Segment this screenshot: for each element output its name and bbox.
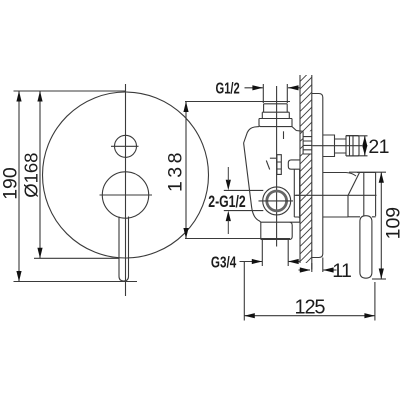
dimension G3/4: extension lines [262, 240, 288, 267]
dimension 21: dimension line [364, 136, 366, 156]
side view: body bottom lip [294, 217, 300, 222]
svg-text:138: 138 [165, 153, 187, 193]
arrowhead G3/4 left [252, 259, 262, 264]
dimension 109: extension bottom [372, 278, 386, 280]
side view: body front edge [293, 169, 295, 217]
dimension 190: extension line bottom [14, 281, 138, 283]
svg-text:109: 109 [382, 207, 400, 240]
dimension 190: dimension line [18, 91, 20, 282]
svg-text:125: 125 [295, 297, 326, 319]
arrowhead 168 top [37, 91, 42, 102]
arrowhead 109 top [379, 172, 384, 183]
front view: diverter button circle [115, 135, 137, 157]
side view: wall thread block [303, 131, 311, 154]
arrowhead 2-G1/2 bottom [226, 211, 231, 222]
arrowhead 138 bottom [183, 228, 188, 239]
front view: vertical centerline [125, 84, 127, 296]
side view: inlet boss outer circle [263, 187, 291, 215]
side view: test plug cap [277, 155, 281, 175]
side view: G1/2 top pipe [262, 104, 289, 119]
side view: body interior dash [283, 131, 285, 139]
arrowhead G1/2 right [288, 85, 299, 90]
front view: handle hub circle [102, 172, 148, 218]
escutcheon plate side: back/front faces [312, 94, 323, 258]
front view: escutcheon plate circle O168 [43, 92, 209, 258]
side view: top pipe flange [259, 119, 292, 127]
dimension G1/2: leader right [288, 87, 300, 89]
svg-text:Ø168: Ø168 [21, 153, 42, 198]
dimension 168: dimension line [39, 91, 41, 258]
side view: inlet thread ring [267, 191, 287, 211]
dimension G1/2: extension lines [263, 84, 287, 103]
arrowhead 21 top [362, 136, 367, 147]
arrowhead 125 right [364, 313, 375, 318]
handle arm edges [357, 173, 376, 217]
connector: neck [335, 136, 347, 157]
arrowhead 21 bottom [362, 145, 367, 156]
arrowhead 125 left [244, 313, 255, 318]
dimension 109: dimension line [380, 172, 382, 279]
arrowhead 11 left [300, 267, 311, 272]
dimension G3/4: leader right [289, 261, 301, 263]
dimension 125: extension right [374, 282, 376, 321]
side view: stem axis centerline [296, 194, 377, 196]
dimension 190: extension line top [14, 90, 126, 92]
connector: axis centerline [312, 145, 362, 147]
svg-text:2-G1/2: 2-G1/2 [208, 193, 245, 211]
escutcheon plate face extension [322, 258, 324, 273]
side view: body neck left step [244, 127, 259, 143]
arrowhead 2-G1/2 top [226, 180, 231, 191]
wall: left face [299, 75, 301, 263]
handle arm shoulder [348, 216, 376, 218]
arrowhead 109 bottom [379, 269, 384, 280]
side view: body front edge upper [299, 154, 301, 160]
arrowhead 11 right [323, 267, 334, 272]
arrowhead 168 bottom [37, 248, 42, 258]
arrowhead G1/2 left [252, 85, 263, 90]
svg-text:G1/2: G1/2 [216, 78, 241, 97]
side view: bottom outlet pipe G3/4 [261, 222, 300, 239]
dimension 125: extension left [243, 262, 245, 321]
connector: through-plate section [323, 135, 335, 157]
arrowhead 190 bottom [16, 271, 21, 282]
side view: plug stub line [270, 157, 277, 159]
connector: tip [346, 136, 359, 157]
wall hatch [292, 62, 312, 285]
side view: body back slant [244, 143, 261, 222]
dimension 138: extension line bottom [185, 238, 290, 240]
arrowhead 190 top [16, 91, 21, 102]
dimension 168: extension line bottom [34, 257, 119, 259]
dimension G3/4: leader left [240, 261, 263, 263]
side view: inlet crosshair [259, 200, 294, 202]
dimension 125: dimension line [244, 315, 375, 317]
dimension 11: leader right [323, 269, 336, 271]
dimension 138: extension line top [185, 101, 290, 103]
dimension 11: wall face extension [311, 263, 313, 272]
arrowhead G3/4 right [288, 259, 299, 264]
2-G1/2 arrow stems [227, 167, 229, 234]
side view: inlet tangent extension bottom [224, 210, 263, 212]
side view: inlet tangent extension top [224, 189, 263, 191]
dimension 138: dimension line [185, 102, 187, 239]
front view: lever handle capsule [119, 217, 129, 282]
svg-text:1: 1 [379, 136, 390, 158]
lever bar capsule [360, 216, 372, 279]
side view: vertical centerline [276, 86, 278, 247]
dimension 21: extension lines [346, 136, 368, 156]
arrowhead 138 top [183, 102, 188, 113]
wall: right face [311, 75, 313, 270]
svg-text:1: 1 [341, 260, 352, 282]
handle hub [323, 173, 356, 218]
side view: cartridge stub [288, 160, 300, 169]
front view: diverter button crosshair [111, 145, 139, 147]
svg-text:G3/4: G3/4 [211, 253, 236, 271]
dimension 109: extension top [349, 171, 386, 173]
side view: plug left tick [266, 161, 269, 170]
side view: body top-right slant to wall [292, 127, 303, 132]
svg-text:190: 190 [0, 167, 22, 200]
handle arm taper diagonal [348, 173, 360, 196]
dimension G1/2: leader left [245, 87, 263, 89]
side view: sleeve front edge [294, 169, 299, 217]
dimension 11: leader left [299, 269, 311, 271]
front view: handle hub crosshair [100, 194, 153, 196]
